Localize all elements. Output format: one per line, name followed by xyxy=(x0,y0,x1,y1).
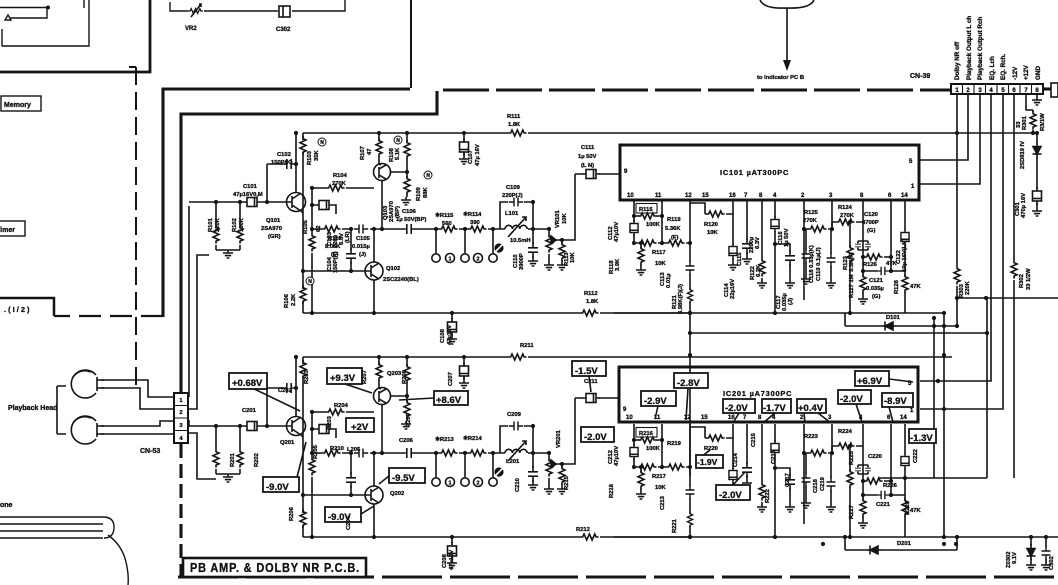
svg-text:Dolby NR off: Dolby NR off xyxy=(954,41,961,80)
svg-text:C106: C106 xyxy=(402,209,417,215)
svg-text:R112: R112 xyxy=(584,291,598,297)
svg-text:47: 47 xyxy=(367,149,373,155)
svg-text:✳R114: ✳R114 xyxy=(463,211,482,218)
svg-text:C109: C109 xyxy=(506,185,521,191)
svg-text:62: 62 xyxy=(316,226,322,232)
svg-text:33 1/2W: 33 1/2W xyxy=(1026,268,1032,290)
svg-text:12: 12 xyxy=(685,193,692,199)
svg-text:C119 0.1µ(J): C119 0.1µ(J) xyxy=(816,247,822,281)
svg-text:R101: R101 xyxy=(208,217,214,232)
svg-text:-2.8V: -2.8V xyxy=(677,378,700,389)
svg-text:-9.0V: -9.0V xyxy=(266,482,289,493)
svg-text:R210: R210 xyxy=(330,446,344,452)
svg-text:15: 15 xyxy=(702,193,709,199)
svg-text:R227: R227 xyxy=(849,505,855,519)
svg-text:6.3V: 6.3V xyxy=(755,237,761,249)
svg-text:Q203: Q203 xyxy=(387,371,402,377)
svg-text:22µ16V: 22µ16V xyxy=(730,279,736,299)
svg-text:D201: D201 xyxy=(897,541,912,547)
svg-text:Playback Head: Playback Head xyxy=(8,405,57,412)
svg-text:C218: C218 xyxy=(813,478,819,493)
svg-text:C107: C107 xyxy=(468,150,474,164)
svg-text:390: 390 xyxy=(470,220,480,226)
svg-text:IC201 µA7300PC: IC201 µA7300PC xyxy=(723,389,792,398)
svg-text:220P(J): 220P(J) xyxy=(502,193,523,199)
svg-text:470µ 16V: 470µ 16V xyxy=(1021,193,1027,218)
svg-text:10: 10 xyxy=(626,415,633,421)
svg-text:IC101 µAT300PC: IC101 µAT300PC xyxy=(720,168,789,177)
svg-text:R212: R212 xyxy=(576,527,590,533)
svg-text:R3/1W: R3/1W xyxy=(1040,113,1046,131)
svg-text:2.2K: 2.2K xyxy=(291,293,297,306)
svg-text:R220: R220 xyxy=(704,446,718,452)
svg-text:2SC2240(BL): 2SC2240(BL) xyxy=(383,277,419,283)
svg-text:EQ. Rch.: EQ. Rch. xyxy=(1000,54,1007,80)
svg-text:C222: C222 xyxy=(913,449,919,463)
svg-text:C216: C216 xyxy=(771,449,777,464)
svg-text:150P(K): 150P(K) xyxy=(333,251,339,273)
svg-text:CN-53: CN-53 xyxy=(140,448,160,455)
svg-text:270K: 270K xyxy=(803,218,818,224)
svg-text:5.36K: 5.36K xyxy=(665,226,681,232)
svg-text:10: 10 xyxy=(627,193,634,199)
svg-text:-12V: -12V xyxy=(1012,66,1019,80)
svg-text:270K: 270K xyxy=(840,213,855,219)
svg-text:L205: L205 xyxy=(347,447,361,453)
svg-text:R221: R221 xyxy=(672,518,678,533)
svg-text:+0.68V: +0.68V xyxy=(232,378,263,389)
svg-text:R107: R107 xyxy=(360,146,366,160)
svg-text:14: 14 xyxy=(901,193,908,199)
svg-text:-1.3V: -1.3V xyxy=(910,433,933,444)
svg-text:1µ 50V: 1µ 50V xyxy=(784,228,790,247)
svg-text:EQ. Lch: EQ. Lch xyxy=(989,56,996,80)
svg-text:(F): (F) xyxy=(671,235,678,241)
svg-text:VR201: VR201 xyxy=(556,429,562,448)
svg-text:+8.6V: +8.6V xyxy=(436,395,462,406)
svg-text:R124: R124 xyxy=(838,205,853,211)
svg-text:0.015µ: 0.015µ xyxy=(352,244,370,250)
svg-text:10K: 10K xyxy=(570,252,576,263)
svg-text:R103: R103 xyxy=(307,150,313,165)
svg-text:100K: 100K xyxy=(646,446,661,452)
svg-text:R109: R109 xyxy=(416,186,422,201)
svg-text:33: 33 xyxy=(1016,121,1022,128)
svg-text:6.98K(F)(J): 6.98K(F)(J) xyxy=(678,284,684,314)
svg-text:R206: R206 xyxy=(289,506,295,521)
svg-text:2SA970: 2SA970 xyxy=(261,226,282,232)
svg-text:1.8K: 1.8K xyxy=(508,122,521,128)
svg-text:C105: C105 xyxy=(356,236,371,242)
svg-text:10K: 10K xyxy=(707,230,718,236)
svg-text:+0.4V: +0.4V xyxy=(798,403,824,414)
svg-text:R110: R110 xyxy=(328,236,342,242)
svg-text:10µ 16V(LN): 10µ 16V(LN) xyxy=(902,239,908,272)
svg-text:C302: C302 xyxy=(1049,556,1055,570)
svg-text:C220: C220 xyxy=(868,454,882,460)
svg-text:C204: C204 xyxy=(346,515,352,530)
svg-text:-2.9V: -2.9V xyxy=(644,396,667,407)
svg-text:Q102: Q102 xyxy=(386,266,400,272)
svg-text:47µ10V: 47µ10V xyxy=(614,222,620,242)
svg-text:R117: R117 xyxy=(652,250,666,256)
svg-text:(GR): (GR) xyxy=(268,234,281,240)
svg-text:88K: 88K xyxy=(423,187,429,198)
svg-text:(J): (J) xyxy=(788,298,794,305)
svg-text:D101: D101 xyxy=(886,315,901,321)
svg-text:Q202: Q202 xyxy=(390,491,404,497)
svg-text:Q201: Q201 xyxy=(280,440,295,446)
svg-text:C102: C102 xyxy=(277,152,291,158)
svg-text:100K: 100K xyxy=(646,222,661,228)
svg-text:4700P: 4700P xyxy=(862,220,879,226)
svg-text:R201: R201 xyxy=(230,452,236,467)
svg-text:R105: R105 xyxy=(303,219,309,234)
svg-text:VR101: VR101 xyxy=(555,209,561,228)
svg-text:1.8K: 1.8K xyxy=(586,299,599,305)
svg-text:-1.5V: -1.5V xyxy=(575,366,598,377)
svg-text:2: 2 xyxy=(476,256,479,262)
svg-text:(LR): (LR) xyxy=(345,231,351,243)
svg-text:. ( I / 2 ): . ( I / 2 ) xyxy=(4,305,30,314)
svg-text:R120: R120 xyxy=(704,222,718,228)
svg-text:R226: R226 xyxy=(883,483,898,489)
svg-text:R216: R216 xyxy=(639,431,654,437)
svg-text:VR2: VR2 xyxy=(185,26,197,32)
svg-text:Memory: Memory xyxy=(4,102,31,109)
svg-text:R202: R202 xyxy=(254,453,260,467)
svg-text:C221: C221 xyxy=(876,502,891,508)
svg-text:+12V: +12V xyxy=(1023,64,1030,80)
svg-text:R225: R225 xyxy=(849,450,855,465)
svg-text:R224: R224 xyxy=(838,429,853,435)
svg-text:-1.7V: -1.7V xyxy=(763,403,786,414)
svg-text:0.01µ: 0.01µ xyxy=(666,273,672,288)
svg-text:R207: R207 xyxy=(362,370,368,384)
svg-text:220K: 220K xyxy=(215,217,221,232)
svg-text:C214: C214 xyxy=(733,452,739,467)
svg-text:R203: R203 xyxy=(304,369,310,384)
svg-text:(G): (G) xyxy=(872,294,880,300)
svg-text:Q101: Q101 xyxy=(266,218,281,224)
svg-text:R125: R125 xyxy=(804,210,819,216)
svg-text:R302: R302 xyxy=(1019,274,1025,288)
svg-text:2: 2 xyxy=(476,480,479,486)
svg-text:C203: C203 xyxy=(327,415,333,430)
svg-text:R106: R106 xyxy=(284,293,290,308)
svg-text:14: 14 xyxy=(900,415,907,421)
svg-text:✳R213: ✳R213 xyxy=(435,436,454,443)
svg-text:47µ10V: 47µ10V xyxy=(614,446,620,466)
svg-text:-2.0V: -2.0V xyxy=(725,403,748,414)
svg-text:2: 2 xyxy=(179,410,182,416)
svg-text:11: 11 xyxy=(655,193,662,199)
svg-text:10K: 10K xyxy=(655,261,666,267)
svg-text:C208: C208 xyxy=(442,553,448,568)
svg-text:10K: 10K xyxy=(655,485,666,491)
svg-text:(J): (J) xyxy=(359,252,366,258)
svg-text:10.5mH: 10.5mH xyxy=(510,238,531,244)
svg-text:-2.0V: -2.0V xyxy=(840,394,863,405)
svg-text:C108: C108 xyxy=(440,328,446,343)
svg-text:L101: L101 xyxy=(505,211,519,217)
svg-text:C209: C209 xyxy=(507,412,522,418)
svg-text:C219: C219 xyxy=(820,476,826,491)
svg-text:C215: C215 xyxy=(751,432,757,447)
svg-text:GND: GND xyxy=(1035,66,1042,80)
svg-text:5.1K: 5.1K xyxy=(395,147,401,160)
svg-text:R128: R128 xyxy=(894,279,900,294)
svg-text:R219: R219 xyxy=(667,441,682,447)
svg-text:R218: R218 xyxy=(609,483,615,498)
svg-text:6.2K: 6.2K xyxy=(756,264,762,277)
svg-text:L201: L201 xyxy=(506,459,520,465)
svg-text:C210: C210 xyxy=(515,478,521,492)
svg-text:to Indicator PC B: to Indicator PC B xyxy=(757,75,804,81)
svg-text:R119: R119 xyxy=(667,217,681,223)
svg-text:16: 16 xyxy=(729,193,736,199)
svg-text:560: 560 xyxy=(442,221,452,227)
svg-text:-2.0V: -2.0V xyxy=(584,432,607,443)
svg-text:✳R115: ✳R115 xyxy=(435,212,454,219)
svg-text:CN-39: CN-39 xyxy=(910,73,930,80)
svg-text:C121: C121 xyxy=(869,278,884,284)
svg-text:PB AMP. & DOLBY NR P.C.B.: PB AMP. & DOLBY NR P.C.B. xyxy=(190,561,360,575)
svg-text:Playback Output L ch: Playback Output L ch xyxy=(966,16,973,80)
svg-text:C213: C213 xyxy=(660,495,666,510)
svg-text:R215: R215 xyxy=(564,475,570,490)
svg-text:C111: C111 xyxy=(581,145,595,151)
svg-text:C202: C202 xyxy=(278,388,292,394)
svg-text:+9.3V: +9.3V xyxy=(330,373,356,384)
svg-text:3.3K(F): 3.3K(F) xyxy=(849,252,855,272)
svg-text:✳R214: ✳R214 xyxy=(463,435,482,442)
svg-text:C302: C302 xyxy=(276,27,291,33)
svg-text:35K: 35K xyxy=(314,150,320,161)
svg-text:-2.0V: -2.0V xyxy=(719,490,742,501)
svg-text:one: one xyxy=(0,502,13,509)
svg-text:(G): (G) xyxy=(867,228,875,234)
svg-text:1µ 50V: 1µ 50V xyxy=(578,154,597,160)
svg-text:C118 0.33µ(K): C118 0.33µ(K) xyxy=(809,245,815,283)
svg-text:100K: 100K xyxy=(239,217,245,232)
svg-text:C211: C211 xyxy=(584,379,598,385)
svg-text:150P(K): 150P(K) xyxy=(271,160,293,166)
svg-text:+6.9V: +6.9V xyxy=(857,376,883,387)
svg-text:47µ16V: 47µ16V xyxy=(447,325,453,345)
svg-text:R126: R126 xyxy=(863,262,878,268)
svg-text:1µ 50V(BP): 1µ 50V(BP) xyxy=(396,217,426,223)
svg-text:-8.9V: -8.9V xyxy=(884,396,907,407)
svg-text:3900P: 3900P xyxy=(519,253,525,270)
svg-text:R209: R209 xyxy=(406,412,412,427)
svg-text:R217: R217 xyxy=(652,474,666,480)
svg-text:(L N): (L N) xyxy=(581,163,594,169)
svg-text:220K: 220K xyxy=(965,280,971,295)
svg-text:C120: C120 xyxy=(864,212,878,218)
svg-text:+2V: +2V xyxy=(351,422,369,433)
svg-text:47K: 47K xyxy=(910,508,921,514)
svg-text:C115: C115 xyxy=(737,252,743,266)
svg-text:47µ 16V: 47µ 16V xyxy=(475,144,481,166)
svg-text:9.1V: 9.1V xyxy=(1012,552,1018,564)
svg-text:R204: R204 xyxy=(334,403,349,409)
svg-text:C206: C206 xyxy=(399,438,414,444)
svg-text:R223: R223 xyxy=(804,434,819,440)
svg-text:47µ16V0,M: 47µ16V0,M xyxy=(233,192,263,198)
svg-text:C101: C101 xyxy=(243,184,258,190)
svg-text:47µ16V: 47µ16V xyxy=(449,550,455,570)
svg-text:R211: R211 xyxy=(520,343,534,349)
svg-text:R208: R208 xyxy=(402,369,408,384)
svg-text:R301: R301 xyxy=(1022,115,1028,130)
svg-text:R111: R111 xyxy=(507,114,521,120)
svg-text:R116: R116 xyxy=(639,207,653,213)
svg-text:8.06K: 8.06K xyxy=(325,244,341,250)
svg-text:270K: 270K xyxy=(332,181,347,187)
svg-text:R205: R205 xyxy=(313,444,319,459)
svg-text:C217: C217 xyxy=(785,473,791,487)
svg-text:-1.9V: -1.9V xyxy=(697,457,718,467)
svg-text:2SD819 IV: 2SD819 IV xyxy=(1020,141,1026,169)
svg-text:C201: C201 xyxy=(242,408,257,414)
svg-text:-9.5V: -9.5V xyxy=(392,473,415,484)
svg-text:C207: C207 xyxy=(448,372,454,386)
svg-text:Timer: Timer xyxy=(0,227,15,234)
svg-text:R104: R104 xyxy=(333,173,348,179)
svg-text:0.035µ: 0.035µ xyxy=(866,286,884,292)
svg-text:3.9K: 3.9K xyxy=(615,258,621,271)
svg-text:R102: R102 xyxy=(232,218,238,232)
svg-text:R222: R222 xyxy=(765,489,771,503)
svg-text:R127 1M: R127 1M xyxy=(849,274,855,298)
svg-text:10K: 10K xyxy=(562,213,568,224)
svg-text:47K: 47K xyxy=(910,284,921,290)
svg-text:15: 15 xyxy=(701,415,708,421)
svg-text:Playback Output Rch: Playback Output Rch xyxy=(977,17,984,80)
